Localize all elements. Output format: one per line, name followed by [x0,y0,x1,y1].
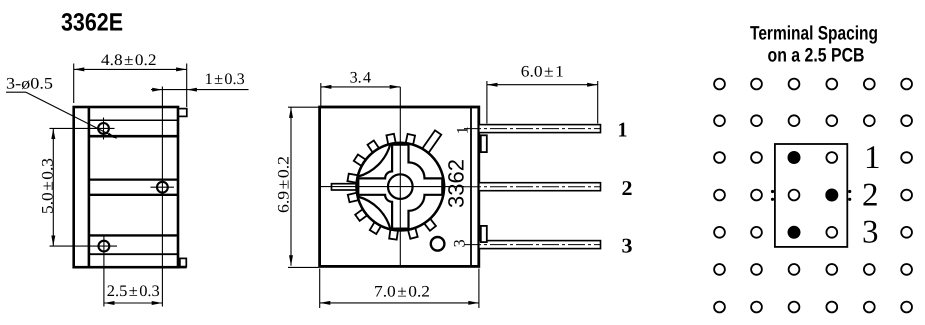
svg-text:3-ø0.5: 3-ø0.5 [6,76,53,93]
svg-text:2: 2 [862,177,879,213]
centerline dots right [848,190,851,193]
dimension 3.4 [321,83,401,107]
rotor cross slot [358,145,442,229]
terminal T2 crosshair [151,182,175,193]
rotor horizontal centerline [321,186,465,188]
dimension 6.0±1 [487,81,598,124]
centerline through T2 [161,87,163,307]
inner horizontal line c [89,178,178,180]
svg-text:2: 2 [622,176,633,200]
pin 1 [464,125,601,153]
svg-text:6.0 ± 1: 6.0 ± 1 [521,64,564,81]
svg-text:1: 1 [864,140,881,176]
rotor vertical centerline [399,87,401,266]
bottom-right tab [180,258,186,266]
svg-text:7.0 ± 0.2: 7.0 ± 0.2 [374,283,430,300]
svg-text:3362E: 3362E [61,9,123,37]
svg-text:Terminal Spacing: Terminal Spacing [750,22,878,44]
pin 2 [464,183,601,191]
inner horizontal line d [89,194,178,196]
rotor main circle [357,143,445,231]
rotor NW lens arc [358,144,391,177]
inner horizontal line a [89,119,178,121]
svg-text:1 ± 0.3: 1 ± 0.3 [205,71,245,88]
inner horizontal line b [89,135,178,138]
terminal T3 crosshair [50,236,118,307]
svg-text:3362: 3362 [444,159,469,208]
inner horizontal line e [89,234,178,236]
dimension 4.8±0.2 [74,64,187,108]
svg-text:on a 2.5 PCB: on a 2.5 PCB [768,45,865,67]
pcb outline box [775,144,847,247]
inner vertical line [88,107,91,267]
svg-text:2.5 ± 0.3: 2.5 ± 0.3 [107,283,160,300]
dimension 6.9±0.2 [288,107,319,267]
svg-text:3: 3 [862,215,879,251]
dimension 1±0.3 [151,88,249,92]
dimension 5.0±0.3 [51,128,55,246]
top-right tab [178,109,187,117]
svg-text:6.9 ± 0.2: 6.9 ± 0.2 [276,156,293,213]
centerline dots left [771,190,774,193]
pcb hole grid [714,79,912,313]
svg-text:5.0 ± 0.3: 5.0 ± 0.3 [39,158,56,214]
small index circle [431,237,445,251]
svg-text:1: 1 [454,126,471,134]
rotor rim restroke [357,143,445,231]
svg-text:1: 1 [618,117,628,141]
dimension 2.5±0.3 [104,301,162,305]
svg-text:3. 4: 3. 4 [350,70,372,87]
body outline top view [320,107,479,266]
dimension 7.0±0.2 [320,269,479,309]
rotor left stop bar [332,184,362,190]
rotor [332,130,445,239]
terminal T1 crosshair [50,118,115,140]
svg-text:3: 3 [452,239,469,247]
rotor center circle [388,174,413,199]
pin 3 [464,226,601,249]
rotor SW lens arc [358,197,391,230]
inner right vertical line [470,107,472,266]
svg-text:4.8 ± 0.2: 4.8 ± 0.2 [101,52,157,69]
body outline left view [74,107,178,267]
inner horizontal line f [89,253,178,255]
rotor teeth [347,130,441,239]
svg-text:3: 3 [622,233,633,257]
